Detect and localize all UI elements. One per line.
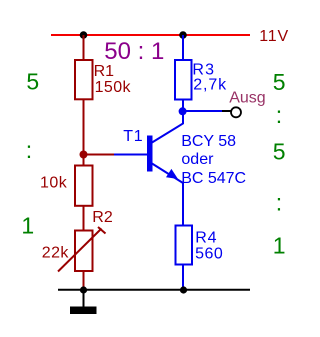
svg-text:5: 5 [273, 69, 286, 95]
wire emitter to R4 [182, 183, 184, 226]
svg-text:T1: T1 [123, 128, 143, 145]
wire base red segment [84, 154, 115, 156]
label BCY 58 oder BC 547C [181, 133, 246, 187]
svg-text:560: 560 [195, 246, 223, 263]
node junction top-left [80, 31, 88, 39]
node junction bottom-left [80, 286, 87, 293]
wire base blue segment [114, 154, 147, 156]
wire 10k to R2 [83, 206, 85, 231]
svg-text::: : [276, 102, 282, 128]
svg-text:Ausg: Ausg [229, 90, 265, 107]
node junction bottom-right [180, 286, 187, 293]
wire R4 to ground rail [182, 265, 184, 291]
node junction top-right [179, 31, 187, 39]
resistor 10k [75, 166, 93, 206]
resistor R3 [175, 60, 192, 100]
svg-text:BC 547C: BC 547C [181, 170, 246, 187]
wire output blue [183, 110, 222, 112]
svg-text:22k: 22k [42, 244, 70, 261]
terminal Ausg [231, 107, 241, 117]
svg-text:150k: 150k [95, 79, 132, 96]
wire output black [222, 110, 231, 112]
transistor Q1 emitter [152, 164, 183, 184]
wire R2 to ground rail [83, 271, 85, 290]
power rail 11V [51, 34, 250, 36]
svg-text::: : [26, 137, 32, 163]
node collector junction [179, 107, 187, 115]
svg-text:BCY 58: BCY 58 [181, 133, 236, 150]
ground rail [58, 289, 250, 291]
resistor R1 [75, 60, 93, 99]
svg-text:1: 1 [273, 232, 286, 258]
svg-text:10k: 10k [40, 174, 68, 191]
svg-text::: : [276, 189, 282, 215]
wire R1 to base node [83, 100, 85, 166]
svg-text:R2: R2 [92, 209, 113, 226]
svg-text:R4: R4 [195, 230, 217, 247]
svg-text:50 : 1: 50 : 1 [104, 38, 164, 65]
wire rail to R1 [83, 35, 85, 60]
resistor R4 [176, 226, 193, 265]
wire rail to R3 [182, 35, 184, 60]
ground [70, 290, 97, 314]
svg-text:oder: oder [181, 151, 214, 168]
label R3 2,7k [192, 62, 227, 94]
node base junction [80, 151, 88, 159]
svg-text:R1: R1 [94, 63, 115, 80]
transistor Q1 base bar [147, 136, 153, 172]
label R4 560 [195, 230, 223, 263]
svg-text:2,7k: 2,7k [193, 76, 227, 93]
svg-text:5: 5 [273, 138, 286, 164]
arrow of trimmer R2 [58, 227, 106, 272]
resistor R2 [75, 231, 93, 272]
svg-text:5: 5 [26, 68, 39, 94]
svg-text:1: 1 [21, 212, 34, 238]
svg-text:11V: 11V [259, 28, 289, 45]
transistor Q1 collector [152, 101, 183, 143]
